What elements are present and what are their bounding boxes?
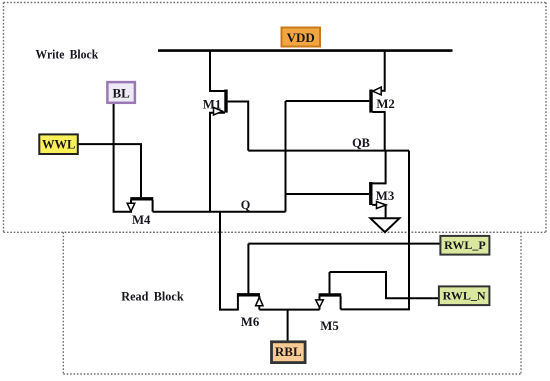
wire RWL_P line xyxy=(248,243,440,245)
wire M2 gate line xyxy=(286,100,370,102)
transistor M3 xyxy=(371,151,394,218)
wire M5 gate to RWL_N xyxy=(330,272,440,298)
svg-text:RBL: RBL xyxy=(275,344,302,359)
BL terminal box xyxy=(107,82,134,103)
transistor M6 xyxy=(237,244,263,329)
svg-text:QB: QB xyxy=(352,136,370,150)
wire VDD rail xyxy=(158,49,453,52)
write block dashed border xyxy=(4,3,547,233)
transistor M1 xyxy=(203,90,226,212)
wire M1 gate to QB corner xyxy=(228,102,249,151)
svg-text:WWL: WWL xyxy=(42,138,75,152)
svg-text:Q: Q xyxy=(241,198,251,212)
svg-text:M2: M2 xyxy=(376,97,394,111)
wire Q to read block (M6 drain) xyxy=(220,212,238,310)
WWL terminal box xyxy=(39,134,78,154)
node Q wire xyxy=(153,211,286,213)
wire BL to M4 xyxy=(114,103,131,212)
svg-text:BL: BL xyxy=(113,86,131,101)
svg-text:M4: M4 xyxy=(132,213,151,227)
RWL_P terminal box xyxy=(440,236,489,255)
RBL terminal box xyxy=(272,342,306,363)
svg-text:Read Block: Read Block xyxy=(121,289,184,304)
wire RBL tap xyxy=(287,310,289,342)
wire M6 source to M5 source xyxy=(259,309,319,311)
svg-text:VDD: VDD xyxy=(287,30,315,45)
wire WWL to M4 gate xyxy=(78,144,141,197)
transistor M2 xyxy=(371,87,395,150)
transistor M4 xyxy=(127,199,153,227)
svg-text:RWL_N: RWL_N xyxy=(443,289,486,303)
node QB wire xyxy=(248,150,409,152)
transistor M5 xyxy=(316,272,342,333)
RWL_N terminal box xyxy=(439,286,490,305)
wire M3 gate line xyxy=(286,193,370,195)
wire Q vertical (cross-couple) xyxy=(285,101,287,212)
svg-text:RWL_P: RWL_P xyxy=(444,238,486,252)
read block dashed border xyxy=(63,232,521,374)
wire QB to M5 drain xyxy=(341,151,409,310)
svg-text:M6: M6 xyxy=(241,315,260,329)
svg-text:M5: M5 xyxy=(320,319,338,333)
svg-text:M3: M3 xyxy=(376,189,394,203)
wire VDD rail to M2 drain xyxy=(381,51,385,91)
ground xyxy=(370,218,399,232)
svg-text:M1: M1 xyxy=(203,98,221,112)
svg-text:Write Block: Write Block xyxy=(36,47,99,62)
VDD supply box xyxy=(282,28,321,47)
wire VDD rail to M1 drain xyxy=(210,51,225,91)
